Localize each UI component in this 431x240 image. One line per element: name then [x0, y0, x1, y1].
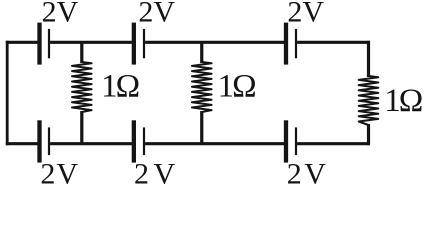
- svg-text:2V: 2V: [287, 157, 329, 190]
- wire bottom rail segment 4: [297, 142, 370, 145]
- svg-text:1Ω: 1Ω: [218, 68, 256, 104]
- battery cell top 3 short thin plate: [295, 29, 297, 58]
- wire right side bottom lead: [367, 124, 370, 145]
- wire branch 1 bottom lead: [80, 111, 83, 144]
- wire branch 1 top lead: [80, 42, 83, 63]
- wire left side: [6, 41, 9, 145]
- resistor R3 1 ohm zigzag: [359, 76, 379, 125]
- wire top rail segment 3: [145, 41, 284, 44]
- battery cell top 1 short thin plate: [48, 29, 50, 58]
- svg-text:1Ω: 1Ω: [101, 68, 139, 104]
- resistor R1 1 ohm zigzag: [72, 62, 92, 112]
- svg-text:1Ω: 1Ω: [384, 83, 422, 119]
- svg-text:2V: 2V: [134, 157, 180, 190]
- wire bottom rail segment 2: [50, 142, 132, 145]
- battery cell bottom 2 short thin plate: [143, 127, 145, 155]
- wire top rail segment 4: [297, 41, 370, 44]
- svg-text:2V: 2V: [42, 0, 79, 29]
- wire right side top lead: [367, 41, 370, 77]
- wire top rail segment 2: [50, 41, 132, 44]
- battery cell bottom 3 long thick plate: [284, 120, 288, 162]
- battery cell bottom 2 long thick plate: [132, 120, 136, 162]
- wire bottom rail segment 1: [6, 142, 38, 145]
- battery cell top 2 short thin plate: [143, 29, 145, 58]
- battery cell bottom 3 short thin plate: [295, 127, 297, 155]
- resistor R2 1 ohm zigzag: [192, 62, 212, 112]
- battery cell bottom 1 long thick plate: [37, 120, 41, 162]
- svg-text:2V: 2V: [287, 0, 324, 29]
- wire branch 2 top lead: [200, 42, 203, 63]
- battery cell top 2 long thick plate: [132, 23, 136, 65]
- wire bottom rail segment 3: [145, 142, 284, 145]
- wire top rail segment 1: [6, 41, 38, 44]
- wire branch 2 bottom lead: [200, 111, 203, 144]
- battery cell top 3 long thick plate: [284, 23, 288, 65]
- svg-text:2V: 2V: [138, 0, 175, 29]
- battery cell top 1 long thick plate: [37, 23, 41, 65]
- battery cell bottom 1 short thin plate: [48, 127, 50, 155]
- svg-text:2V: 2V: [40, 157, 79, 190]
